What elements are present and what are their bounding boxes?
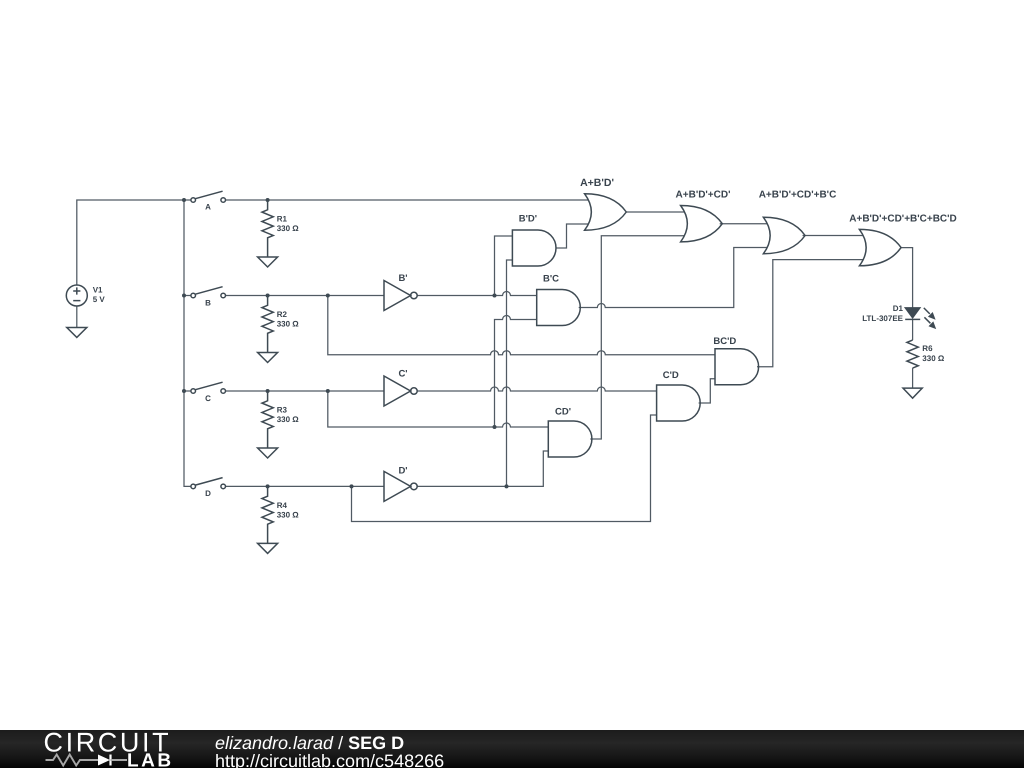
- inverter U3 (D'): [384, 471, 417, 501]
- svg-text:C': C': [398, 369, 407, 380]
- svg-text:B: B: [205, 298, 211, 307]
- OR gate X3 (A+B'D'+CD'+B'C): [763, 217, 805, 253]
- node D-prime tap junction: [505, 484, 509, 488]
- switch SW_B: [191, 287, 226, 298]
- resistor R1 330 ohm: [262, 200, 273, 257]
- OR gate X4 (A+B'D'+CD'+B'C+BC'D): [859, 229, 901, 265]
- AND gate U4 (B'D'): [512, 230, 556, 266]
- wire row A from switch to OR gate X1 top input: [225, 199, 588, 201]
- switch SW_C: [191, 382, 226, 393]
- svg-text:LTL-307EE: LTL-307EE: [862, 314, 903, 323]
- svg-text:B'C: B'C: [543, 273, 559, 284]
- CircuitLab logo: [0, 730, 200, 768]
- svg-text:B'D': B'D': [519, 213, 537, 224]
- wire OR X1 output to OR X2 top input: [626, 211, 684, 213]
- svg-text:CD': CD': [555, 407, 571, 418]
- node V1/bus/switch A junction: [182, 198, 186, 202]
- svg-text:330 Ω: 330 Ω: [277, 224, 300, 233]
- node B-prime tap junction: [493, 294, 497, 298]
- logo diode symbol: [98, 755, 110, 766]
- wire resistor R6 to ground: [912, 368, 914, 388]
- svg-text:D': D': [398, 465, 407, 476]
- wire AND U6 output to OR X2 bottom input: [590, 236, 684, 439]
- ground for R3: [258, 448, 278, 458]
- node R3 tap junction: [266, 389, 270, 393]
- svg-text:330 Ω: 330 Ω: [277, 510, 300, 519]
- wire bus stub switch C: [184, 390, 191, 392]
- wire AND U4 top input stub to B-prime node: [495, 236, 513, 296]
- svg-text:R2: R2: [277, 310, 288, 319]
- svg-text:V1: V1: [93, 286, 103, 295]
- node C split junction: [326, 389, 330, 393]
- resistor R4 330 ohm: [262, 486, 273, 543]
- node D split junction: [350, 484, 354, 488]
- resistor R2 330 ohm: [262, 296, 273, 353]
- LED D1 LTL-307EE: [905, 308, 936, 329]
- wire OR X3 output to OR X4 top input: [803, 235, 864, 237]
- wire D direct line to AND gate U8 bottom input: [352, 415, 657, 522]
- AND gate U7 (BC'D): [715, 349, 759, 385]
- wire AND U8 output to AND U7 bottom input: [699, 379, 715, 403]
- wire LED D1 to resistor R6: [912, 319, 914, 340]
- AND gate U5 (B'C): [537, 290, 581, 326]
- node bus/switch B junction: [182, 294, 186, 298]
- wire row B switch to inverter U1: [225, 295, 384, 297]
- wire bus stub switch B: [184, 295, 191, 297]
- resistor R3 330 ohm: [262, 391, 273, 448]
- footer url text: [215, 751, 444, 772]
- voltage source V1 5V: [66, 285, 87, 306]
- wire C direct line to AND gate U6 top input: [328, 391, 549, 427]
- node R1 tap junction: [266, 198, 270, 202]
- wire V1 top to bus: [77, 200, 184, 285]
- svg-text:C: C: [205, 394, 211, 403]
- svg-text:A: A: [205, 202, 211, 211]
- wire AND U7 output to OR X4 bottom input: [757, 260, 863, 367]
- inverter U1 (B'): [384, 281, 417, 311]
- svg-text:330 Ω: 330 Ω: [277, 415, 300, 424]
- AND gate U8 (C'D): [657, 385, 701, 421]
- wire OR X4 output to LED D1: [900, 248, 913, 308]
- wire B direct line to AND gate U7 top input: [328, 296, 715, 355]
- wire AND U5 bottom input stub to C node: [495, 316, 537, 428]
- wire D-prime line from inverter U3 to AND gate U6 bottom input: [417, 451, 548, 486]
- switch SW_A: [191, 191, 226, 202]
- svg-text:330 Ω: 330 Ω: [277, 319, 300, 328]
- node bus/switch C junction: [182, 389, 186, 393]
- svg-text:B': B': [398, 273, 407, 284]
- svg-text:D: D: [205, 489, 211, 498]
- svg-text:LAB: LAB: [127, 751, 174, 769]
- node C tap junction: [493, 425, 497, 429]
- ground for R6: [903, 388, 922, 398]
- svg-text:A+B'D'+CD': A+B'D'+CD': [676, 190, 731, 201]
- wire B-prime line from inverter U1 to AND gate U5: [417, 292, 537, 296]
- wire AND U4 bottom input stub to D-prime node: [507, 260, 513, 486]
- wire row C switch to inverter U2: [225, 390, 384, 392]
- svg-text:BC'D: BC'D: [713, 336, 736, 347]
- svg-text:A+B'D'+CD'+B'C: A+B'D'+CD'+B'C: [759, 190, 837, 201]
- ground for R2: [258, 353, 278, 363]
- wire V1 to ground: [76, 306, 78, 328]
- svg-text:A+B'D'+CD'+B'C+BC'D: A+B'D'+CD'+B'C+BC'D: [849, 214, 956, 225]
- svg-text:330 Ω: 330 Ω: [922, 354, 945, 363]
- wire left bus vertical: [184, 200, 191, 486]
- OR gate X1 (A+B'D'): [585, 194, 627, 230]
- svg-text:C'D: C'D: [663, 370, 679, 381]
- svg-text:R3: R3: [277, 405, 288, 414]
- svg-text:R1: R1: [277, 214, 288, 223]
- ground for R1: [258, 257, 278, 267]
- inverter U2 (C'): [384, 376, 417, 406]
- svg-text:A+B'D': A+B'D': [580, 177, 614, 189]
- AND gate U6 (CD'): [548, 421, 592, 457]
- wire AND U4 output to OR X1 bottom input: [556, 224, 589, 248]
- footer bar: [0, 730, 1024, 768]
- wire bus stub switch A: [184, 199, 191, 201]
- svg-text:5 V: 5 V: [93, 295, 106, 304]
- resistor R6 330 ohm: [907, 340, 918, 368]
- ground for V1: [67, 328, 87, 338]
- wire row D switch to inverter U3: [225, 485, 384, 487]
- node R2 tap junction: [266, 294, 270, 298]
- footer author / title text: [215, 733, 404, 754]
- svg-text:R6: R6: [922, 344, 933, 353]
- ground for R4: [258, 543, 278, 553]
- switch SW_D: [191, 478, 226, 489]
- wire AND U5 output to OR X3 bottom input: [579, 248, 768, 308]
- wire OR X2 output to OR X3 top input: [720, 223, 768, 225]
- OR gate X2 (A+B'D'+CD'): [681, 206, 723, 242]
- svg-text:D1: D1: [893, 304, 904, 313]
- logo resistor symbol: [46, 755, 99, 766]
- svg-text:R4: R4: [277, 501, 288, 510]
- node B split junction: [326, 294, 330, 298]
- wire C-prime line from inverter U2 to AND gate U8: [417, 387, 656, 391]
- node R4 tap junction: [266, 484, 270, 488]
